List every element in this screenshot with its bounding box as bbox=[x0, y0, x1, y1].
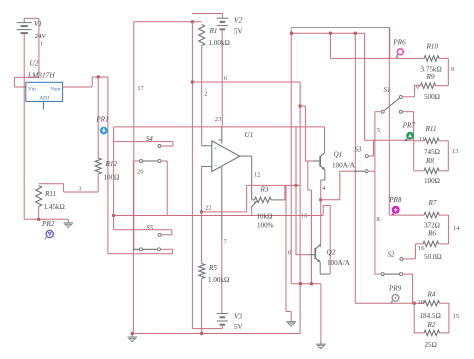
svg-text:50.0Ω: 50.0Ω bbox=[424, 253, 442, 261]
label 10kohm bbox=[257, 213, 273, 221]
wire bottom-left bus bbox=[24, 218, 68, 220]
svg-text:23: 23 bbox=[215, 116, 222, 123]
ground middle bbox=[286, 318, 296, 326]
wire v291 bbox=[290, 33, 292, 284]
wire S5 top throw bbox=[114, 230, 172, 235]
ground bottom-left bbox=[128, 334, 138, 342]
svg-text:R12: R12 bbox=[105, 160, 118, 168]
resistor R12 bbox=[95, 158, 101, 174]
resistor R7 bbox=[424, 212, 449, 217]
svg-text:1.45kΩ: 1.45kΩ bbox=[44, 203, 65, 211]
wire net 11 bbox=[365, 139, 414, 141]
ground Q2 bbox=[316, 341, 326, 349]
svg-text:184.5Ω: 184.5Ω bbox=[420, 312, 441, 320]
label PR1 bbox=[95, 116, 108, 124]
node 5 bbox=[377, 127, 380, 134]
svg-text:5: 5 bbox=[377, 127, 380, 134]
gray rail bbox=[291, 28, 390, 59]
junction 22 bbox=[200, 210, 203, 213]
pin Vout bbox=[51, 86, 62, 92]
label PR7 bbox=[402, 122, 416, 130]
svg-text:0: 0 bbox=[288, 249, 291, 256]
wire R11 bottom bbox=[38, 207, 40, 220]
wire PR6 net bbox=[330, 57, 424, 59]
node 14 bbox=[453, 225, 460, 232]
wire v305 bbox=[304, 106, 306, 161]
transistor Q1 bar bbox=[319, 156, 321, 167]
svg-text:2: 2 bbox=[204, 90, 207, 97]
wire R9 left bbox=[403, 86, 421, 97]
label PR9 bbox=[388, 284, 402, 292]
resistor R11 bbox=[36, 186, 42, 207]
wire h283 bbox=[291, 283, 321, 285]
svg-text:25Ω: 25Ω bbox=[425, 341, 437, 349]
wire R7-R6 loop bbox=[439, 215, 449, 244]
label 50ohm bbox=[424, 253, 442, 261]
resistor R5mid bbox=[199, 264, 205, 279]
svg-text:R2: R2 bbox=[427, 321, 436, 329]
svg-text:R5: R5 bbox=[208, 264, 217, 272]
svg-text:100Ω: 100Ω bbox=[104, 174, 120, 182]
label R9 bbox=[426, 73, 435, 81]
junction R5-bus bbox=[200, 332, 203, 335]
label U2 bbox=[30, 60, 39, 68]
svg-text:V3: V3 bbox=[234, 313, 242, 321]
pin ADJ bbox=[39, 95, 49, 101]
wire long right of Vout bbox=[107, 77, 109, 254]
wire R8 left bbox=[414, 170, 424, 172]
label Q1 gain bbox=[332, 162, 356, 170]
wire R11b loop bbox=[414, 140, 449, 171]
label R6 bbox=[427, 229, 436, 237]
label S1 bbox=[384, 87, 391, 94]
wire R5b left bbox=[414, 332, 424, 334]
node 15 bbox=[453, 313, 460, 320]
wire h205 step bbox=[323, 206, 330, 275]
junction net10-left bbox=[112, 214, 115, 217]
svg-text:20: 20 bbox=[137, 169, 144, 176]
Q2 emitter bbox=[315, 258, 330, 274]
label 5V top bbox=[234, 28, 244, 36]
wire net23 drop bbox=[324, 127, 326, 153]
wire R3 right up bbox=[284, 185, 286, 200]
svg-text:15: 15 bbox=[453, 313, 460, 320]
svg-text:S5: S5 bbox=[146, 225, 153, 232]
svg-text:R4: R4 bbox=[427, 291, 436, 299]
op-amp plus bbox=[214, 145, 218, 152]
probe PR9 bbox=[390, 295, 399, 304]
label S3 bbox=[355, 146, 362, 153]
label R11b bbox=[425, 125, 437, 133]
svg-text:−: − bbox=[214, 163, 218, 170]
svg-text:12: 12 bbox=[254, 172, 261, 179]
junction Vout bbox=[97, 75, 100, 78]
Q1 base wire bbox=[305, 160, 319, 162]
label 1.45kohm bbox=[44, 203, 65, 211]
node 12 bbox=[254, 172, 261, 179]
wire net 17 bbox=[133, 22, 135, 250]
node 7 bbox=[224, 239, 228, 246]
wire V3 top bbox=[221, 240, 223, 314]
ground left bbox=[64, 219, 74, 227]
svg-text:500Ω: 500Ω bbox=[424, 93, 440, 101]
label 100ohm bbox=[104, 174, 120, 182]
node 23 bbox=[215, 116, 222, 123]
svg-text:V2: V2 bbox=[234, 17, 242, 25]
svg-text:R3: R3 bbox=[260, 185, 269, 193]
wire R6 left bbox=[403, 244, 423, 259]
wire net 8 vertical bbox=[388, 28, 390, 216]
regulator U2 LM317H box bbox=[26, 82, 63, 101]
switch S2 bbox=[381, 257, 403, 275]
wire net 23 bbox=[114, 126, 325, 128]
wire S2 common bbox=[375, 273, 381, 275]
resistor R8 bbox=[424, 168, 439, 173]
label R11 bbox=[44, 190, 56, 198]
wire h107 bbox=[300, 105, 305, 107]
svg-text:V1: V1 bbox=[34, 20, 42, 28]
label 1.00kohm R1 bbox=[209, 39, 230, 47]
label Q1 bbox=[334, 151, 343, 159]
svg-text:11: 11 bbox=[419, 136, 425, 143]
wire S4 top throw bbox=[114, 142, 173, 146]
wire v308 bbox=[308, 161, 312, 284]
label V1 bbox=[34, 20, 42, 28]
svg-text:8: 8 bbox=[377, 216, 380, 223]
wire bottom bus bbox=[132, 333, 300, 335]
wire q1 to S3 bbox=[321, 171, 354, 200]
svg-text:Q1: Q1 bbox=[334, 151, 343, 159]
label R12 bbox=[105, 160, 118, 168]
wire fb bottom bbox=[202, 185, 247, 212]
junction top V2 bbox=[191, 20, 194, 23]
label S5 bbox=[146, 225, 153, 232]
svg-text:LM317H: LM317H bbox=[27, 71, 55, 80]
svg-text:24V: 24V bbox=[35, 33, 47, 40]
label 25ohm bbox=[425, 341, 437, 349]
label R3 bbox=[260, 185, 269, 193]
svg-text:R10: R10 bbox=[426, 43, 439, 51]
node 22 bbox=[205, 205, 212, 212]
Q1 collector bbox=[320, 153, 324, 157]
battery V3 5V bbox=[217, 314, 228, 325]
node 9 bbox=[451, 66, 454, 73]
op-amp power bottom bbox=[221, 167, 223, 240]
wire V3 minus bbox=[192, 325, 222, 329]
wire to Vin bbox=[14, 77, 39, 87]
junction R11-bus bbox=[37, 218, 40, 221]
label U1 bbox=[245, 131, 254, 139]
label R8 bbox=[425, 157, 434, 165]
svg-text:PR8: PR8 bbox=[388, 196, 402, 204]
wire node 3 bbox=[39, 184, 98, 192]
op-amp U1 triangle bbox=[212, 141, 240, 172]
label S4 bbox=[146, 136, 153, 143]
svg-text:10: 10 bbox=[413, 84, 420, 91]
label R1 bbox=[209, 27, 218, 35]
svg-text:16: 16 bbox=[418, 245, 425, 252]
svg-text:ADJ: ADJ bbox=[39, 95, 49, 101]
wire S1 common bbox=[375, 111, 381, 113]
svg-text:17: 17 bbox=[137, 85, 144, 92]
svg-text:Vout: Vout bbox=[51, 86, 62, 92]
svg-text:13: 13 bbox=[452, 148, 459, 155]
junction 18 bbox=[413, 302, 416, 305]
label 5V bottom bbox=[234, 323, 244, 331]
resistor R6 bbox=[423, 241, 439, 246]
label V2 bbox=[234, 17, 242, 25]
node 0 bbox=[288, 249, 291, 256]
label Q2 bbox=[327, 249, 336, 257]
node 3 bbox=[78, 186, 81, 193]
label 372ohm bbox=[424, 222, 440, 230]
resistor R9 bbox=[421, 83, 436, 88]
wire R12 bottom bbox=[97, 174, 99, 192]
node 6 bbox=[224, 75, 227, 82]
wire S4 right bbox=[162, 161, 168, 216]
wire net 10 long bbox=[114, 215, 324, 217]
node 10 mid bbox=[301, 212, 308, 219]
Q1 emitter bbox=[320, 166, 325, 200]
switch S3 bbox=[354, 155, 368, 173]
svg-text:R6: R6 bbox=[427, 229, 436, 237]
wire R10-R9 loop bbox=[436, 58, 449, 85]
svg-text:100%: 100% bbox=[257, 221, 274, 229]
junction bus-left bbox=[131, 332, 134, 335]
junction rail b bbox=[329, 32, 332, 35]
svg-text:R1: R1 bbox=[209, 27, 218, 35]
wire op-amp out bbox=[240, 156, 252, 200]
wire V2 plus bbox=[192, 14, 222, 19]
potentiometer R3 bbox=[251, 197, 285, 215]
wire top to R1 bbox=[134, 21, 202, 23]
svg-text:5V: 5V bbox=[234, 323, 244, 331]
svg-text:U1: U1 bbox=[245, 131, 254, 139]
svg-text:U2: U2 bbox=[30, 60, 39, 68]
wire PR1 branch bbox=[97, 77, 99, 159]
probe PR6 bbox=[396, 49, 404, 58]
svg-text:745Ω: 745Ω bbox=[424, 148, 440, 156]
wire v296 bbox=[295, 127, 297, 255]
junction fb2 bbox=[294, 184, 297, 187]
svg-text:PR6: PR6 bbox=[392, 38, 406, 46]
svg-text:S4: S4 bbox=[146, 136, 153, 143]
node 16 bbox=[418, 245, 425, 252]
switch S4 poles bbox=[133, 160, 161, 163]
svg-text:Q2: Q2 bbox=[327, 249, 336, 257]
svg-text:1.00kΩ: 1.00kΩ bbox=[209, 39, 230, 47]
label PR8 bbox=[388, 196, 402, 204]
Q2 collector bbox=[315, 245, 320, 249]
wire V2 minus bbox=[221, 29, 223, 127]
wire V1 plus lead bbox=[24, 18, 39, 77]
op-amp power top bbox=[219, 127, 222, 144]
wire v300 bbox=[299, 82, 301, 334]
wire S5 right bbox=[108, 249, 173, 254]
node 11 bbox=[419, 136, 425, 143]
svg-text:R11: R11 bbox=[44, 190, 56, 198]
junction rail c bbox=[354, 32, 357, 35]
svg-text:100A/A: 100A/A bbox=[327, 259, 351, 267]
node 17 bbox=[137, 85, 144, 92]
node 2 bbox=[204, 90, 207, 97]
wire rail to PR6 bbox=[329, 33, 331, 58]
wire Vout bbox=[63, 77, 108, 87]
label 100ohm R8 bbox=[424, 177, 440, 185]
pin Vin bbox=[28, 86, 36, 92]
svg-text:10kΩ: 10kΩ bbox=[257, 213, 273, 221]
node 8 bbox=[377, 216, 380, 223]
junction rail a bbox=[290, 32, 293, 35]
label 24V bbox=[35, 33, 47, 40]
svg-text:R7: R7 bbox=[428, 199, 437, 207]
node 13 bbox=[452, 148, 459, 155]
svg-text:14: 14 bbox=[453, 225, 460, 232]
label R5mid bbox=[208, 264, 217, 272]
op-amp minus bbox=[214, 163, 218, 170]
red rail 33 bbox=[291, 32, 364, 34]
svg-text:9: 9 bbox=[451, 66, 454, 73]
wire S1 down bbox=[374, 112, 376, 274]
label PR2 bbox=[41, 220, 55, 228]
node 20 bbox=[137, 169, 144, 176]
svg-text:R8: R8 bbox=[425, 157, 434, 165]
transistor Q2 bar bbox=[314, 248, 316, 259]
junction h283b bbox=[310, 282, 313, 285]
battery V2 5V bbox=[217, 18, 228, 29]
label Q2 gain bbox=[327, 259, 351, 267]
junction net6 bbox=[191, 80, 194, 83]
resistor R10 bbox=[424, 56, 448, 61]
svg-text:PR2: PR2 bbox=[41, 220, 55, 228]
wire S4 upper bbox=[113, 127, 115, 230]
svg-text:1.00kΩ: 1.00kΩ bbox=[208, 276, 229, 284]
switch S4 throw circle bbox=[158, 145, 161, 148]
wire S3 common right bbox=[368, 170, 374, 172]
svg-text:1: 1 bbox=[40, 41, 43, 48]
svg-text:PR1: PR1 bbox=[95, 116, 108, 124]
switch S5 poles bbox=[133, 248, 161, 251]
node 10r bbox=[413, 84, 420, 91]
label R4 bbox=[427, 291, 436, 299]
ADJ stub bbox=[42, 101, 44, 109]
label LM317H bbox=[27, 71, 55, 80]
switch S5 throw circle bbox=[158, 233, 161, 236]
wire S3 vertical bbox=[364, 33, 366, 140]
label R7 bbox=[428, 199, 437, 207]
battery V1 24V bbox=[17, 23, 32, 33]
svg-text:6: 6 bbox=[224, 75, 227, 82]
svg-text:PR7: PR7 bbox=[402, 122, 416, 130]
switch S1 bbox=[381, 96, 402, 114]
resistor R4 bbox=[424, 301, 449, 306]
svg-text:R11: R11 bbox=[425, 125, 437, 133]
wire R1 bottom bbox=[201, 46, 203, 146]
probe PR1 bbox=[100, 127, 108, 135]
svg-text:100A/A: 100A/A bbox=[332, 162, 356, 170]
svg-text:Vin: Vin bbox=[28, 86, 36, 92]
junction h283a bbox=[299, 282, 302, 285]
svg-text:S2: S2 bbox=[388, 252, 395, 259]
node 4 bbox=[322, 185, 326, 192]
resistor R5b bbox=[424, 330, 440, 335]
svg-text:PR9: PR9 bbox=[388, 284, 402, 292]
wire S1 throw2 bbox=[403, 112, 414, 141]
wire fb top bbox=[247, 184, 301, 186]
wire V1 minus lead bbox=[23, 33, 25, 219]
node 1 bbox=[40, 41, 43, 48]
Q2 base wire bbox=[296, 254, 314, 256]
wire net 8 horizontal bbox=[389, 214, 424, 216]
label S2 bbox=[388, 252, 395, 259]
label 745ohm bbox=[424, 148, 440, 156]
junction Q1e bbox=[319, 198, 322, 201]
wire h283 drop bbox=[320, 284, 322, 341]
label 100pct bbox=[257, 221, 274, 229]
wire R4-R5 loop bbox=[414, 303, 449, 333]
label 184.5ohm bbox=[420, 312, 441, 320]
wire net 22 bbox=[201, 166, 203, 333]
label 500ohm bbox=[424, 93, 440, 101]
svg-text:3: 3 bbox=[78, 186, 81, 193]
junction v300-107 bbox=[298, 104, 301, 107]
svg-text:100Ω: 100Ω bbox=[424, 177, 440, 185]
svg-text:372Ω: 372Ω bbox=[424, 222, 440, 230]
label PR6 bbox=[392, 38, 406, 46]
svg-text:S3: S3 bbox=[355, 146, 362, 153]
label 3.75kohm bbox=[421, 66, 442, 74]
probe PR7 bbox=[405, 132, 414, 142]
svg-text:R9: R9 bbox=[426, 73, 435, 81]
svg-text:22: 22 bbox=[205, 205, 212, 212]
wire v286 bbox=[286, 185, 291, 318]
resistor R1 bbox=[199, 25, 205, 46]
probe PR8 bbox=[392, 206, 400, 216]
probe PR2 bbox=[45, 230, 54, 239]
svg-text:5V: 5V bbox=[234, 28, 244, 36]
wire S-common bbox=[132, 161, 134, 334]
resistor R11b bbox=[414, 138, 439, 143]
wire S2 right bbox=[403, 274, 413, 303]
label V3 bbox=[234, 313, 242, 321]
node 18 bbox=[418, 299, 425, 306]
wire S3 throw1 bbox=[369, 140, 374, 156]
wire net2 vertical bbox=[191, 22, 193, 329]
label 1.00kohm R5 bbox=[208, 276, 229, 284]
wire v320 down bbox=[319, 200, 321, 247]
op-amp input stubs bbox=[202, 146, 212, 167]
svg-text:+: + bbox=[214, 145, 218, 152]
label R5b bbox=[427, 321, 436, 329]
wire net 6 bbox=[192, 81, 300, 83]
label R10 bbox=[426, 43, 439, 51]
wire net 18 bbox=[355, 302, 424, 304]
wire PR9 vertical bbox=[354, 33, 356, 303]
